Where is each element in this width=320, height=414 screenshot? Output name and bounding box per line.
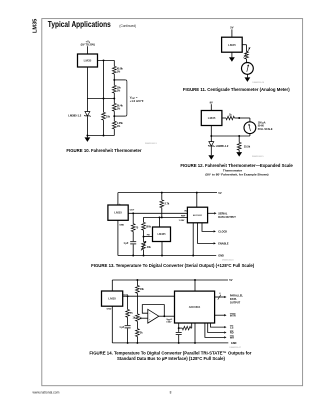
svg-text:OUTPUT: OUTPUT — [230, 302, 241, 305]
svg-text:100k: 100k — [146, 225, 152, 228]
svg-text:2.7k: 2.7k — [165, 203, 170, 206]
svg-text:LM385: LM385 — [157, 232, 166, 236]
svg-text:GND: GND — [107, 308, 112, 310]
svg-text:5V: 5V — [229, 278, 232, 282]
svg-text:CLOCK: CLOCK — [218, 231, 227, 234]
svg-text:16k: 16k — [140, 288, 145, 291]
svg-text:1 µF: 1 µF — [123, 242, 128, 245]
svg-text:OUT: OUT — [130, 210, 135, 212]
svg-text:WR: WR — [230, 337, 234, 340]
svg-text:REF: REF — [181, 216, 186, 218]
svg-text:SERIAL: SERIAL — [218, 212, 228, 215]
svg-text:DS005516-13: DS005516-13 — [145, 143, 157, 145]
svg-text:8: 8 — [170, 391, 172, 395]
svg-text:LM35: LM35 — [114, 211, 122, 215]
svg-text:GND: GND — [218, 255, 224, 258]
svg-text:FIGURE 13. Temperature To Digi: FIGURE 13. Temperature To Digital Conver… — [91, 263, 255, 268]
svg-text:+1.0 mV/°F: +1.0 mV/°F — [130, 99, 144, 103]
svg-text:CS: CS — [230, 326, 234, 329]
svg-text:ADC0831: ADC0831 — [193, 214, 203, 217]
svg-text:1.28V: 1.28V — [179, 220, 185, 222]
svg-text:5V: 5V — [218, 191, 221, 195]
svg-text:LM35: LM35 — [108, 297, 116, 301]
svg-text:DS005516-17: DS005516-17 — [229, 347, 241, 349]
svg-text:LM385-1.2: LM385-1.2 — [216, 144, 229, 148]
svg-text:FULL SCALE: FULL SCALE — [258, 128, 273, 131]
svg-text:DS005516-16: DS005516-16 — [222, 259, 234, 261]
svg-text:Standard Data Bus to µP Interf: Standard Data Bus to µP Interface) (128°… — [117, 356, 226, 361]
svg-text:FIGURE 10. Fahrenheit Thermome: FIGURE 10. Fahrenheit Thermometer — [66, 148, 142, 153]
svg-text:DATA OUTPUT: DATA OUTPUT — [218, 216, 236, 219]
svg-text:(50° to 80° Fahrenheit, for Ex: (50° to 80° Fahrenheit, for Example Show… — [205, 173, 268, 177]
svg-text:10k: 10k — [106, 115, 111, 118]
svg-text:DS005516-14: DS005516-14 — [252, 82, 264, 84]
svg-text:DS005516-15: DS005516-15 — [252, 156, 264, 158]
svg-text:(Continued): (Continued) — [119, 24, 136, 28]
svg-text:9V: 9V — [210, 102, 213, 105]
svg-text:(5V TO 20V): (5V TO 20V) — [81, 43, 95, 47]
svg-text:INTR: INTR — [230, 314, 236, 317]
svg-text:LM35: LM35 — [84, 59, 92, 63]
svg-text:ENABLE: ENABLE — [218, 243, 229, 246]
svg-text:1 µF: 1 µF — [119, 326, 124, 329]
svg-text:FB: FB — [147, 235, 150, 237]
svg-text:25.5k: 25.5k — [244, 146, 251, 149]
svg-text:LM35: LM35 — [228, 43, 236, 47]
svg-text:FIGURE 14. Temperature To Digi: FIGURE 14. Temperature To Digital Conver… — [89, 351, 251, 356]
svg-text:LM35: LM35 — [208, 116, 216, 120]
svg-text:5V: 5V — [230, 26, 233, 30]
svg-text:0.64V: 0.64V — [166, 321, 172, 324]
svg-text:LM35: LM35 — [32, 19, 38, 33]
svg-text:40k: 40k — [147, 246, 152, 249]
svg-text:ADC0804: ADC0804 — [189, 305, 201, 309]
svg-text:8: 8 — [219, 293, 220, 295]
svg-text:RD: RD — [230, 332, 234, 335]
svg-text:GND: GND — [119, 225, 124, 227]
svg-text:www.national.com: www.national.com — [33, 390, 60, 394]
svg-text:LM385-1.2: LM385-1.2 — [68, 114, 82, 118]
svg-text:FIGURE 11. Centigrade Thermome: FIGURE 11. Centigrade Thermometer (Analo… — [183, 87, 290, 92]
svg-text:GND: GND — [231, 342, 237, 345]
svg-text:Typical Applications: Typical Applications — [48, 20, 111, 30]
